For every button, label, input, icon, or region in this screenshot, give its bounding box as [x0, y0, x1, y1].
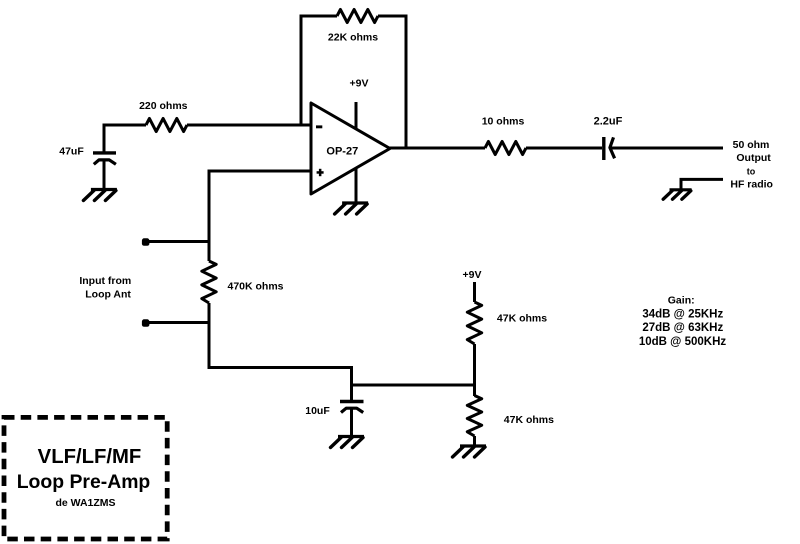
- resistor R6 47K ohms (lower): [467, 396, 481, 437]
- wire +9V to op-amp: [355, 102, 358, 129]
- node input terminal A (upper): [142, 238, 150, 246]
- svg-text:Loop Ant: Loop Ant: [85, 289, 131, 301]
- wire R6 to ground: [473, 436, 476, 445]
- wire terminal B to bus: [146, 321, 210, 324]
- svg-text:+9V: +9V: [463, 269, 482, 281]
- wire bias bus vertical lower: [208, 303, 211, 366]
- svg-text:OP-27: OP-27: [326, 145, 358, 157]
- ground G4 (below C3): [338, 435, 364, 438]
- wire bias bus vertical upper: [208, 170, 211, 262]
- svg-text:470K ohms: 470K ohms: [227, 281, 283, 293]
- resistor R2 220 ohms: [146, 119, 187, 132]
- svg-text:50 ohm: 50 ohm: [733, 139, 770, 151]
- svg-text:47K ohms: 47K ohms: [504, 414, 554, 426]
- pin marker non-inverting (+): [317, 171, 324, 174]
- svg-text:10 ohms: 10 ohms: [482, 115, 525, 127]
- svg-text:34dB @ 25KHz: 34dB @ 25KHz: [642, 309, 723, 321]
- pin marker inverting (-): [316, 125, 322, 128]
- wire C1 to ground: [103, 161, 106, 189]
- wire C2 to output: [612, 147, 724, 150]
- svg-text:10uF: 10uF: [305, 405, 330, 417]
- wire R3 to C2: [526, 147, 602, 150]
- wire non-inverting input: [209, 170, 311, 173]
- op-amp U1 OP-27: [311, 103, 390, 194]
- node input terminal B (lower): [142, 319, 150, 327]
- capacitor C3 10uF: [340, 400, 364, 403]
- wire input node to R2: [104, 124, 146, 127]
- wire C3 to ground: [350, 410, 353, 436]
- resistor R5 47K ohms (upper): [467, 302, 481, 344]
- wire bias junction horizontal: [352, 384, 475, 387]
- svg-text:Input from: Input from: [79, 275, 131, 287]
- wire op-amp output: [388, 147, 485, 150]
- svg-text:27dB @ 63KHz: 27dB @ 63KHz: [642, 322, 723, 334]
- svg-text:2.2uF: 2.2uF: [594, 115, 623, 127]
- svg-text:22K ohms: 22K ohms: [328, 32, 378, 44]
- wire bias bottom horizontal: [208, 366, 352, 369]
- svg-text:Output: Output: [736, 152, 771, 164]
- wire R2 to op-amp inverting input: [187, 124, 311, 127]
- wire R5 to junction: [473, 344, 476, 396]
- svg-text:10dB @ 500KHz: 10dB @ 500KHz: [639, 336, 727, 348]
- wire op-amp to ground: [355, 168, 358, 202]
- svg-text:de WA1ZMS: de WA1ZMS: [55, 497, 115, 509]
- wire feedback left (inverting input to top): [301, 16, 337, 127]
- title box (dashed border): [4, 417, 167, 539]
- wire output ground return: [681, 179, 723, 189]
- wire +9V to R5: [473, 282, 476, 302]
- ground G5 (below R6): [460, 444, 486, 447]
- svg-text:HF radio: HF radio: [730, 178, 773, 190]
- capacitor C1 47uF: [93, 151, 116, 154]
- svg-text:to: to: [747, 167, 756, 177]
- svg-text:Loop Pre-Amp: Loop Pre-Amp: [17, 471, 151, 493]
- svg-text:Gain:: Gain:: [668, 294, 695, 306]
- resistor R4 470K ohms (across input): [202, 261, 216, 303]
- ground G3 (output return): [670, 188, 692, 191]
- ground G1 (below C1): [91, 188, 117, 191]
- capacitor C2 2.2uF: [602, 137, 605, 160]
- wire terminal A to bus: [146, 240, 210, 243]
- wire down to C3: [350, 366, 353, 401]
- svg-text:47K ohms: 47K ohms: [497, 313, 547, 325]
- resistor R3 10 ohms: [485, 142, 526, 155]
- wire node to C1: [103, 124, 106, 154]
- wire feedback right (top to output node): [378, 16, 406, 150]
- svg-text:VLF/LF/MF: VLF/LF/MF: [38, 446, 142, 468]
- svg-text:47uF: 47uF: [59, 146, 84, 158]
- ground G2 (op-amp): [342, 201, 368, 204]
- resistor R1 22K ohms (feedback): [337, 10, 378, 23]
- svg-text:+9V: +9V: [350, 78, 369, 90]
- svg-text:220 ohms: 220 ohms: [139, 100, 188, 112]
